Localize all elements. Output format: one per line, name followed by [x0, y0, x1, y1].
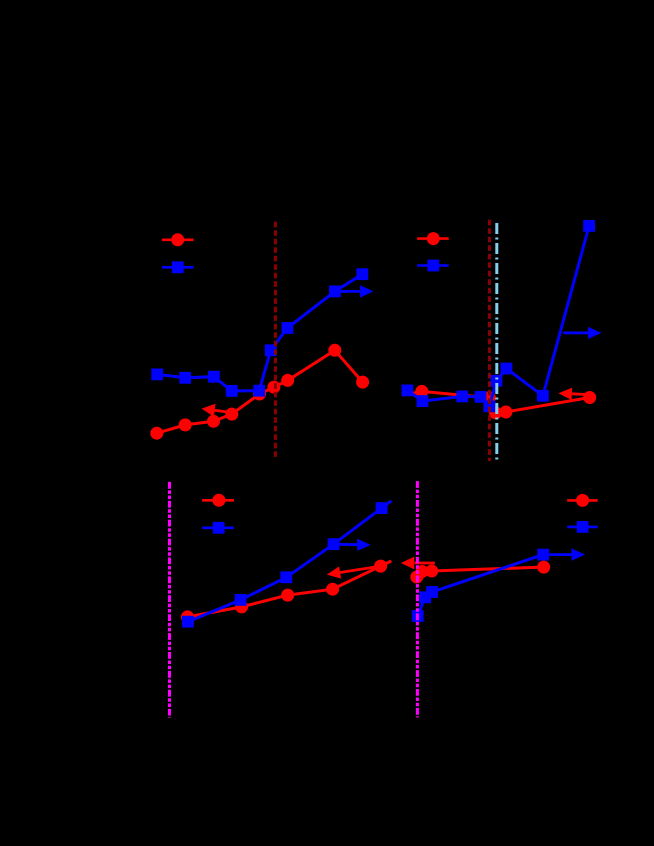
bottom-left blue right arrow: [334, 539, 371, 551]
bottom-left legend blue entry: [202, 522, 234, 533]
top-left dark red dashed vertical line: [274, 222, 277, 460]
bottom-right red data series with circle markers: [411, 561, 550, 583]
top-left legend red entry: [162, 234, 194, 246]
top-left blue right arrow: [335, 285, 374, 297]
bottom-right blue right arrow: [543, 548, 585, 560]
bottom-right legend blue entry: [567, 522, 598, 533]
bottom-left red data series with circle markers: [182, 560, 392, 623]
top-right legend red entry: [417, 233, 449, 245]
top-left blue data series with square markers: [152, 269, 368, 397]
top-left red left arrow: [202, 404, 232, 417]
top-right dark red dashed vertical line: [488, 220, 491, 461]
top-right blue right arrow: [563, 327, 601, 339]
bottom-right magenta dash-dot-dot vertical line: [416, 481, 419, 717]
top-right legend blue entry: [417, 260, 449, 271]
bottom-right blue data series with square markers: [412, 549, 548, 621]
bottom-right legend red entry: [567, 494, 598, 506]
top-right blue data series with square markers: [402, 221, 595, 412]
top-right red left arrow: [558, 388, 589, 400]
top-right light blue dash-dot vertical line: [495, 223, 498, 461]
top-right red data series with circle markers: [404, 385, 596, 419]
bottom-right red left arrow: [401, 557, 435, 569]
bottom-left red left arrow: [327, 566, 381, 579]
bottom-left legend red entry: [202, 494, 234, 506]
top-left legend blue entry: [162, 262, 194, 273]
top-left red data series with circle markers: [151, 344, 369, 439]
bottom-left magenta dash-dot-dot vertical line: [168, 482, 171, 718]
bottom-left blue data series with square markers: [183, 501, 392, 627]
